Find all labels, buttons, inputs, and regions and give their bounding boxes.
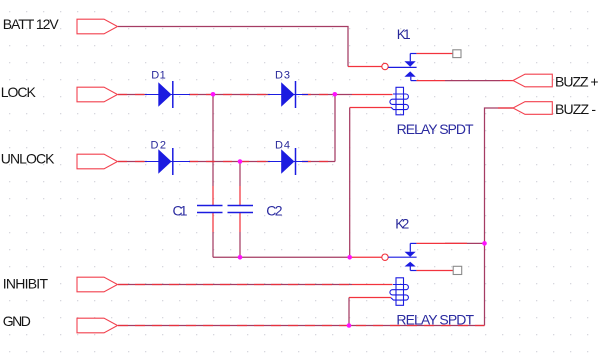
- svg-text:BUZZ -: BUZZ -: [555, 101, 596, 117]
- svg-text:K2: K2: [395, 217, 409, 232]
- svg-text:D4: D4: [275, 139, 290, 151]
- svg-text:C1: C1: [173, 203, 188, 219]
- svg-text:INHIBIT: INHIBIT: [3, 276, 49, 292]
- svg-text:RELAY SPDT: RELAY SPDT: [397, 121, 474, 137]
- svg-text:BATT 12V: BATT 12V: [3, 16, 60, 32]
- svg-text:K1: K1: [397, 27, 411, 42]
- svg-text:GND: GND: [3, 313, 31, 329]
- svg-text:D3: D3: [275, 70, 290, 82]
- svg-text:D2: D2: [151, 139, 167, 151]
- svg-text:D1: D1: [151, 70, 166, 82]
- svg-text:BUZZ +: BUZZ +: [555, 74, 599, 90]
- svg-text:C2: C2: [266, 203, 282, 219]
- svg-text:LOCK: LOCK: [1, 84, 37, 100]
- svg-text:UNLOCK: UNLOCK: [1, 150, 55, 166]
- svg-text:RELAY SPDT: RELAY SPDT: [396, 311, 474, 327]
